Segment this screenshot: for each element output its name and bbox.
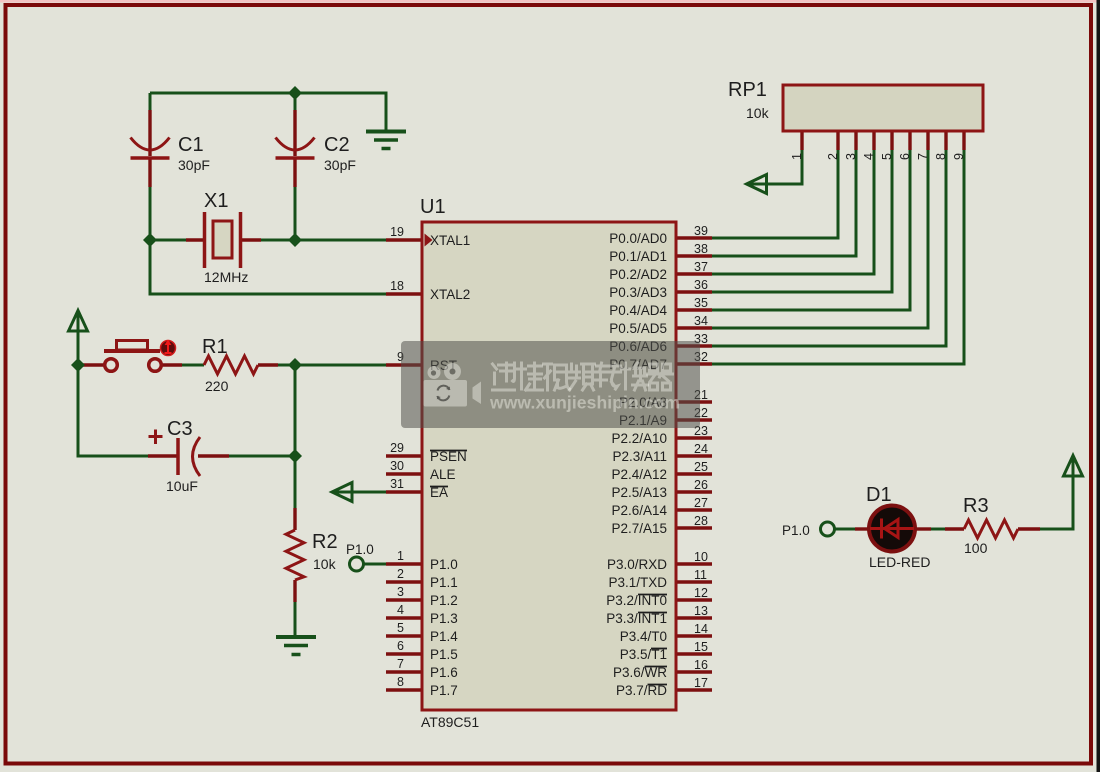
- svg-text:P3.0/RXD: P3.0/RXD: [607, 557, 667, 572]
- svg-text:3: 3: [844, 153, 858, 160]
- svg-text:U1: U1: [420, 196, 446, 218]
- svg-text:26: 26: [694, 478, 708, 492]
- svg-text:10k: 10k: [313, 556, 337, 572]
- svg-text:8: 8: [934, 153, 948, 160]
- svg-text:P1.0: P1.0: [346, 542, 374, 557]
- svg-text:1: 1: [397, 549, 404, 563]
- svg-text:36: 36: [694, 278, 708, 292]
- svg-text:P0.5/AD5: P0.5/AD5: [609, 321, 667, 336]
- svg-text:35: 35: [694, 296, 708, 310]
- svg-text:12: 12: [694, 586, 708, 600]
- svg-text:P1.4: P1.4: [430, 629, 458, 644]
- svg-text:30: 30: [390, 459, 404, 473]
- svg-text:P2.2/A10: P2.2/A10: [611, 431, 667, 446]
- svg-text:17: 17: [694, 676, 708, 690]
- svg-text:9: 9: [952, 153, 966, 160]
- svg-text:2: 2: [397, 567, 404, 581]
- svg-text:100: 100: [964, 540, 988, 556]
- svg-text:5: 5: [880, 153, 894, 160]
- svg-text:7: 7: [397, 657, 404, 671]
- svg-text:C2: C2: [324, 134, 350, 156]
- svg-text:13: 13: [694, 604, 708, 618]
- svg-text:P1.0: P1.0: [782, 523, 810, 538]
- svg-text:16: 16: [694, 658, 708, 672]
- svg-text:XTAL2: XTAL2: [430, 287, 470, 302]
- svg-text:2: 2: [826, 153, 840, 160]
- svg-text:C1: C1: [178, 134, 204, 156]
- svg-text:27: 27: [694, 496, 708, 510]
- svg-text:30pF: 30pF: [324, 157, 356, 173]
- svg-text:10k: 10k: [746, 105, 770, 121]
- svg-text:10uF: 10uF: [166, 478, 198, 494]
- svg-text:11: 11: [694, 568, 707, 582]
- svg-text:18: 18: [390, 279, 404, 293]
- svg-text:P1.7: P1.7: [430, 683, 458, 698]
- svg-text:P2.7/A15: P2.7/A15: [611, 521, 667, 536]
- svg-text:P1.0: P1.0: [430, 557, 458, 572]
- svg-text:1: 1: [790, 153, 804, 160]
- svg-text:P2.4/A12: P2.4/A12: [611, 467, 667, 482]
- svg-text:P0.0/AD0: P0.0/AD0: [609, 231, 667, 246]
- svg-text:30pF: 30pF: [178, 157, 210, 173]
- svg-text:P2.6/A14: P2.6/A14: [611, 503, 667, 518]
- svg-text:38: 38: [694, 242, 708, 256]
- svg-text:P1.5: P1.5: [430, 647, 458, 662]
- svg-text:LED-RED: LED-RED: [869, 554, 930, 570]
- svg-text:24: 24: [694, 442, 708, 456]
- svg-text:XTAL1: XTAL1: [430, 233, 470, 248]
- svg-text:7: 7: [916, 153, 930, 160]
- svg-text:P1.6: P1.6: [430, 665, 458, 680]
- svg-text:37: 37: [694, 260, 708, 274]
- svg-text:P0.4/AD4: P0.4/AD4: [609, 303, 667, 318]
- svg-text:6: 6: [397, 639, 404, 653]
- svg-text:R1: R1: [202, 336, 228, 358]
- svg-text:4: 4: [397, 603, 404, 617]
- svg-text:X1: X1: [204, 190, 228, 212]
- svg-text:6: 6: [898, 153, 912, 160]
- svg-text:19: 19: [390, 225, 404, 239]
- svg-text:C3: C3: [167, 418, 193, 440]
- svg-text:31: 31: [390, 477, 404, 491]
- svg-text:4: 4: [862, 153, 876, 160]
- svg-text:P3.4/T0: P3.4/T0: [620, 629, 667, 644]
- svg-text:39: 39: [694, 224, 708, 238]
- svg-text:www.xunjieshipin.com: www.xunjieshipin.com: [489, 393, 680, 413]
- svg-text:5: 5: [397, 621, 404, 635]
- svg-text:P1.2: P1.2: [430, 593, 458, 608]
- svg-text:P3.1/TXD: P3.1/TXD: [608, 575, 667, 590]
- svg-text:RP1: RP1: [728, 79, 767, 101]
- svg-text:220: 220: [205, 378, 229, 394]
- svg-text:P0.2/AD2: P0.2/AD2: [609, 267, 667, 282]
- svg-text:P1.1: P1.1: [430, 575, 458, 590]
- svg-text:P0.3/AD3: P0.3/AD3: [609, 285, 667, 300]
- svg-text:R2: R2: [312, 531, 338, 553]
- svg-text:P2.3/A11: P2.3/A11: [612, 449, 667, 464]
- svg-text:P2.5/A13: P2.5/A13: [611, 485, 667, 500]
- svg-text:AT89C51: AT89C51: [421, 714, 479, 730]
- svg-text:ALE: ALE: [430, 467, 456, 482]
- svg-text:34: 34: [694, 314, 708, 328]
- svg-text:3: 3: [397, 585, 404, 599]
- svg-text:15: 15: [694, 640, 708, 654]
- svg-text:P1.3: P1.3: [430, 611, 458, 626]
- svg-text:D1: D1: [866, 484, 892, 506]
- svg-text:28: 28: [694, 514, 708, 528]
- svg-text:R3: R3: [963, 495, 989, 517]
- svg-text:P0.1/AD1: P0.1/AD1: [609, 249, 667, 264]
- svg-text:14: 14: [694, 622, 708, 636]
- svg-text:8: 8: [397, 675, 404, 689]
- svg-text:10: 10: [694, 550, 708, 564]
- svg-text:29: 29: [390, 441, 404, 455]
- svg-text:12MHz: 12MHz: [204, 269, 248, 285]
- svg-text:25: 25: [694, 460, 708, 474]
